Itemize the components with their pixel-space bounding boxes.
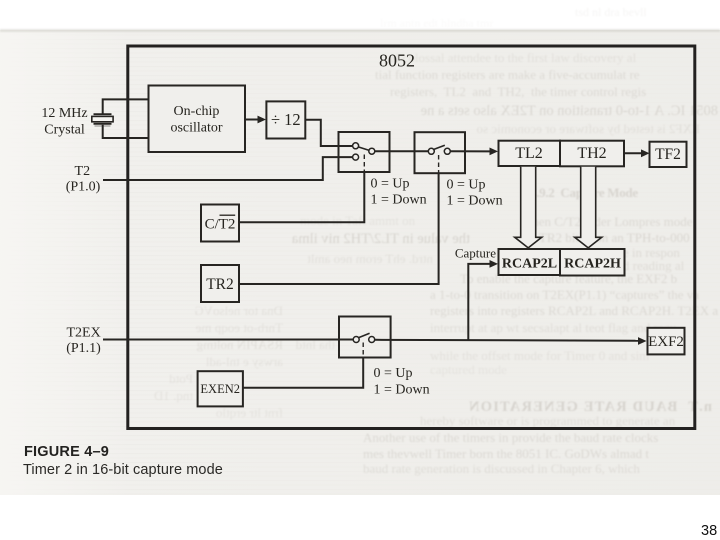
wire T2 pin to switch S1 lower input <box>103 157 353 180</box>
label T2 (P1.0) <box>66 164 101 195</box>
on-chip oscillator box <box>149 86 246 153</box>
svg-text:0 = Up: 0 = Up <box>447 178 486 193</box>
svg-text:T2EX: T2EX <box>66 326 100 341</box>
label Capture <box>455 246 496 261</box>
arrow S2 output to TL2 <box>450 148 498 156</box>
RCAP2H box <box>560 249 625 276</box>
label 12 MHz Crystal <box>41 106 87 138</box>
switch S3 contacts and arm <box>353 333 375 342</box>
dashed control into S3 <box>362 343 364 358</box>
svg-text:C/T2: C/T2 <box>205 217 236 233</box>
wire T2EX to S3 input <box>103 339 353 341</box>
svg-text:EXF2: EXF2 <box>648 334 684 350</box>
switch S1 box <box>339 132 390 172</box>
svg-text:oscillator: oscillator <box>170 121 222 136</box>
EXEN2 box <box>198 371 243 406</box>
svg-text:12 MHz: 12 MHz <box>41 106 87 121</box>
TH2 box <box>560 141 624 167</box>
svg-text:EXEN2: EXEN2 <box>200 382 240 396</box>
arrow oscillator to divide-by-12 <box>245 116 266 124</box>
C/T2 box <box>201 205 239 242</box>
dashed control into S1 <box>363 155 365 172</box>
dashed control into S2 <box>438 155 440 173</box>
capture trigger wire and arrow into RCAP2L <box>468 260 498 340</box>
label 8052 <box>379 51 415 71</box>
frame 8052 border <box>128 46 695 429</box>
svg-text:On-chip: On-chip <box>174 104 220 119</box>
svg-text:TH2: TH2 <box>577 145 606 162</box>
svg-text:RCAP2H: RCAP2H <box>564 257 621 272</box>
wire divide-by-12 to switch S1 upper input <box>305 120 352 146</box>
svg-text:1 = Down: 1 = Down <box>374 383 430 398</box>
wire C/T2 to S1 <box>239 172 364 223</box>
svg-text:T2: T2 <box>75 164 91 179</box>
svg-text:÷ 12: ÷ 12 <box>271 110 301 129</box>
svg-text:Capture: Capture <box>455 246 496 261</box>
svg-text:(P1.1): (P1.1) <box>66 341 101 356</box>
wire S1 output to S2 input <box>375 150 429 152</box>
label 0=Up 1=Down under S2 <box>447 178 503 209</box>
wire crystal top to oscillator <box>103 99 149 113</box>
svg-text:8052: 8052 <box>379 51 415 71</box>
wire TR2 to S2 <box>239 173 439 284</box>
arrow TH2 to TF2 <box>624 149 650 157</box>
RCAP2L box <box>499 249 561 275</box>
label 0=Up 1=Down under S3 <box>374 366 430 398</box>
label T2EX (P1.1) <box>66 326 101 357</box>
crystal X1 <box>92 114 113 126</box>
svg-text:TF2: TF2 <box>655 146 681 163</box>
EXF2 box <box>648 328 685 355</box>
switch S2 box <box>415 132 466 173</box>
svg-text:0 = Up: 0 = Up <box>374 366 413 381</box>
wire S3 output to EXF2 <box>375 337 647 345</box>
TF2 box <box>650 142 687 167</box>
svg-text:1 = Down: 1 = Down <box>371 193 427 208</box>
divide-by-12 box <box>266 101 305 138</box>
TL2 box <box>499 141 561 166</box>
caption title <box>23 462 223 478</box>
label 0=Up 1=Down under S1 <box>371 177 427 208</box>
caption FIGURE 4-9 <box>24 444 109 460</box>
bleed page text rows (decorative) <box>390 50 718 66</box>
svg-text:Crystal: Crystal <box>44 122 85 137</box>
svg-text:(P1.0): (P1.0) <box>66 180 101 195</box>
svg-text:TL2: TL2 <box>515 145 543 162</box>
hollow capture arrow TH2 to RCAP2H <box>575 167 602 248</box>
svg-text:0 = Up: 0 = Up <box>371 177 410 192</box>
switch S1 contacts and arm <box>353 143 375 160</box>
page number <box>701 523 717 539</box>
wire crystal bottom to oscillator <box>103 125 149 138</box>
hollow capture arrow TL2 to RCAP2L <box>515 167 542 248</box>
switch S3 box <box>339 317 391 358</box>
switch S2 contacts and arm <box>428 145 450 154</box>
svg-text:RCAP2L: RCAP2L <box>502 257 557 272</box>
svg-text:TR2: TR2 <box>206 276 234 293</box>
svg-text:1 = Down: 1 = Down <box>447 193 503 208</box>
wire EXEN2 to S3 <box>243 357 363 388</box>
TR2 box <box>201 265 239 302</box>
